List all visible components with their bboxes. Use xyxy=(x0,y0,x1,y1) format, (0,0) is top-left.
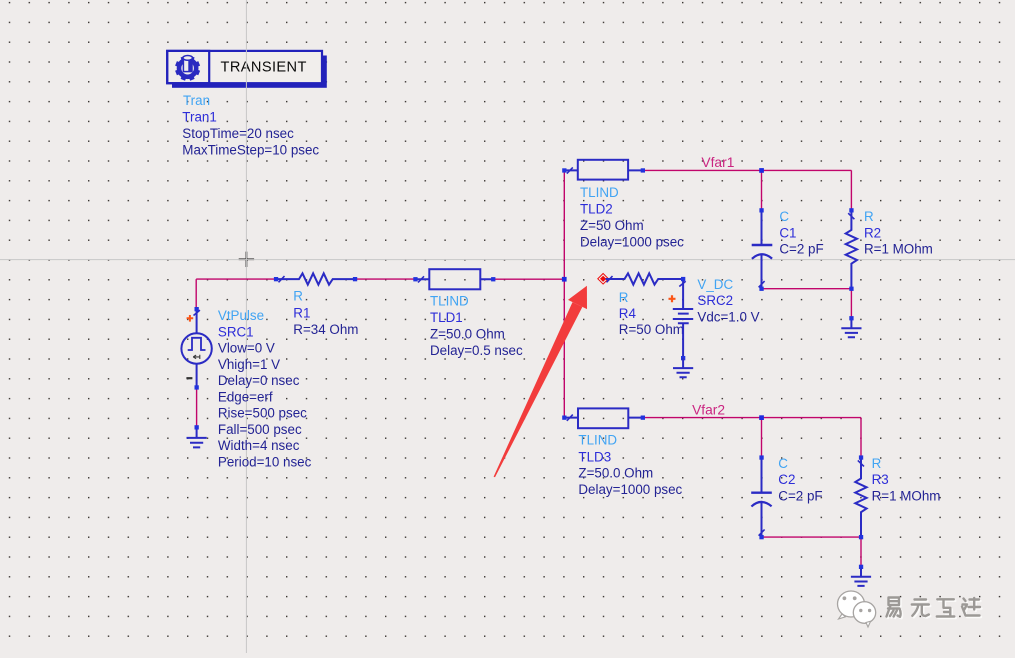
watermark wechat icon xyxy=(838,591,876,627)
svg-text:Rise=500 psec: Rise=500 psec xyxy=(218,406,307,421)
R2 text xyxy=(864,209,933,256)
svg-text:Width=4 nsec: Width=4 nsec xyxy=(218,438,300,453)
pin slash R1 xyxy=(279,276,285,282)
terminal C1 top xyxy=(759,208,763,212)
TRANSIENT controller box xyxy=(167,51,322,83)
minus sign SRC1 xyxy=(186,377,192,379)
wire TLD1 to junction xyxy=(493,278,564,280)
terminal TLD3 left xyxy=(562,416,566,420)
V_DC text xyxy=(697,277,759,324)
svg-text:R=1 MOhm: R=1 MOhm xyxy=(872,488,941,503)
unconnected pin node (red diamond) xyxy=(598,274,609,285)
tline TLD2 xyxy=(564,160,643,180)
svg-text:R=50 Ohm: R=50 Ohm xyxy=(619,322,684,337)
terminal R2 bottom junction xyxy=(849,287,853,291)
pin slash TLD2 xyxy=(567,167,573,173)
plus sign V_DC xyxy=(669,295,676,302)
wire src bottom xyxy=(196,387,198,427)
pin slash V_DC xyxy=(679,281,685,286)
pin slash TLD1 xyxy=(418,276,424,282)
svg-text:SRC2: SRC2 xyxy=(697,293,733,308)
svg-text:C: C xyxy=(778,456,788,471)
svg-text:Delay=1000 psec: Delay=1000 psec xyxy=(580,234,684,249)
terminal SRC1 bottom xyxy=(195,385,199,389)
R3 text xyxy=(872,456,941,503)
svg-text:C2: C2 xyxy=(778,472,795,487)
svg-text:Delay=0 nsec: Delay=0 nsec xyxy=(218,373,300,388)
resistor R1 xyxy=(276,273,355,284)
wire R2 to ground xyxy=(850,289,852,319)
svg-text:Vfar1: Vfar1 xyxy=(701,155,734,170)
wire C2 bottom to R3 bottom xyxy=(762,536,862,538)
svg-text:Fall=500 psec: Fall=500 psec xyxy=(218,422,302,437)
svg-text:R2: R2 xyxy=(864,225,881,240)
terminal R4 right corner xyxy=(681,277,685,281)
svg-text:Delay=0.5 nsec: Delay=0.5 nsec xyxy=(430,343,523,358)
TRANSIENT icon cell xyxy=(167,51,209,83)
svg-text:Vlow=0 V: Vlow=0 V xyxy=(218,341,275,356)
VtPulse SRC1 text xyxy=(218,308,312,470)
wire src top corner xyxy=(196,279,276,309)
svg-text:StopTime=20 nsec: StopTime=20 nsec xyxy=(182,126,294,141)
svg-text:TLD3: TLD3 xyxy=(578,449,611,464)
wire C1 bottom to R2 bottom xyxy=(762,288,852,290)
svg-text:Z=50.0 Ohm: Z=50.0 Ohm xyxy=(578,466,653,481)
junction Vfar2 xyxy=(759,415,764,420)
terminal R1 left xyxy=(274,277,278,281)
junction Vfar1 xyxy=(759,168,764,173)
svg-text:R: R xyxy=(872,456,882,471)
terminal TLD2 left xyxy=(562,168,566,172)
ground V_DC xyxy=(673,358,693,377)
terminal TLD1 right xyxy=(491,277,495,281)
wire C1 top xyxy=(761,170,763,210)
svg-text:Vfar2: Vfar2 xyxy=(692,403,725,418)
svg-text:Period=10 nsec: Period=10 nsec xyxy=(218,455,312,470)
terminal C1 bottom xyxy=(759,287,763,291)
resistor R4 xyxy=(606,273,684,309)
svg-text:Z=50 Ohm: Z=50 Ohm xyxy=(580,218,644,233)
svg-text:TLD1: TLD1 xyxy=(430,310,463,325)
terminal gnd R3 xyxy=(859,565,863,569)
ground R3 xyxy=(851,567,871,586)
svg-text:VtPulse: VtPulse xyxy=(218,308,264,323)
guide line horizontal xyxy=(0,259,1015,261)
svg-text:MaxTimeStep=10 psec: MaxTimeStep=10 psec xyxy=(182,142,319,157)
svg-text:C=2 pF: C=2 pF xyxy=(778,488,822,503)
wire R3 to ground xyxy=(860,537,862,567)
pin slash R3 xyxy=(858,460,864,466)
source VtPulse SRC1 xyxy=(181,309,211,387)
svg-text:Edge=erf: Edge=erf xyxy=(218,389,273,404)
svg-text:C: C xyxy=(779,209,789,224)
terminal R3 bottom junction xyxy=(859,535,863,539)
R4 text xyxy=(619,290,684,337)
terminal R3 top xyxy=(859,455,863,459)
svg-text:R4: R4 xyxy=(619,306,637,321)
TRANSIENT controller shadow xyxy=(172,56,327,88)
wire trunk vertical xyxy=(563,170,565,417)
svg-text:TLIND: TLIND xyxy=(580,185,619,200)
plus sign SRC1 xyxy=(187,315,194,322)
svg-text:Z=50.0 Ohm: Z=50.0 Ohm xyxy=(430,327,505,342)
capacitor C1 xyxy=(752,210,773,288)
cursor crosshair xyxy=(239,252,254,267)
svg-text:R3: R3 xyxy=(872,472,889,487)
ground SRC1 xyxy=(187,427,207,447)
svg-text:Vdc=1.0 V: Vdc=1.0 V xyxy=(697,309,759,324)
svg-text:Vhigh=1 V: Vhigh=1 V xyxy=(218,357,280,372)
TLD3 text xyxy=(578,433,682,497)
terminal C2 top xyxy=(759,455,763,459)
annotation red arrow xyxy=(494,286,587,478)
terminal V_DC bottom xyxy=(681,356,685,360)
svg-text:TLIND: TLIND xyxy=(578,433,617,448)
pin slash SRC1 xyxy=(194,310,200,315)
terminal gnd R2 xyxy=(849,316,853,320)
tline TLD3 xyxy=(564,408,643,428)
wire C2 top xyxy=(761,418,763,458)
guide line vertical xyxy=(245,0,247,653)
TLD2 text xyxy=(580,185,684,250)
svg-text:Delay=1000 psec: Delay=1000 psec xyxy=(578,482,682,497)
svg-text:R=1 MOhm: R=1 MOhm xyxy=(864,242,933,257)
dc source V_DC SRC2 (battery) xyxy=(673,309,693,358)
watermark text 易元互连 xyxy=(887,598,982,619)
svg-text:SRC1: SRC1 xyxy=(218,324,254,339)
wire TLD2 to corner Vfar1 xyxy=(643,170,852,210)
pin slash TLD3 xyxy=(567,415,573,421)
svg-text:TRANSIENT: TRANSIENT xyxy=(221,59,307,75)
terminal SRC1 top xyxy=(195,307,199,311)
pin slash R4 xyxy=(607,276,613,282)
svg-text:R: R xyxy=(619,290,629,305)
svg-text:TLIND: TLIND xyxy=(430,293,469,308)
Tran controller text xyxy=(182,93,319,157)
gear icon xyxy=(176,56,199,80)
svg-text:Tran: Tran xyxy=(183,93,210,108)
ground R2 xyxy=(841,318,861,337)
resistor R3 xyxy=(855,458,866,538)
svg-text:TLD2: TLD2 xyxy=(580,201,613,216)
terminal TLD2 right xyxy=(641,168,645,172)
terminal C2 bottom xyxy=(759,535,763,539)
C1 text xyxy=(779,209,823,256)
resistor R2 xyxy=(846,210,857,288)
svg-text:R: R xyxy=(293,289,303,304)
C2 text xyxy=(778,456,822,503)
terminal R2 top xyxy=(849,208,853,212)
wire TLD3 to corner Vfar2 xyxy=(643,418,861,458)
wire R1 to TLD1 xyxy=(355,278,415,280)
capacitor C2 xyxy=(751,458,772,538)
pin slash C1 xyxy=(759,281,765,287)
tline TLD1 xyxy=(415,269,493,289)
terminal R1 right xyxy=(353,277,357,281)
junction node trunk xyxy=(562,277,567,282)
svg-text:Tran1: Tran1 xyxy=(182,109,216,124)
pin slash C2 xyxy=(759,530,765,536)
pulse delay arrow glyph xyxy=(193,355,200,359)
TLD1 text xyxy=(430,293,523,358)
terminal TLD3 right xyxy=(641,416,645,420)
R1 text xyxy=(293,289,358,337)
svg-text:R: R xyxy=(864,209,874,224)
terminal gnd SRC1 xyxy=(195,425,199,429)
svg-text:R1: R1 xyxy=(293,305,310,320)
terminal TLD1 left xyxy=(413,277,417,281)
pin slash R2 xyxy=(848,213,854,219)
svg-text:R=34 Ohm: R=34 Ohm xyxy=(293,322,358,337)
svg-text:V_DC: V_DC xyxy=(697,277,733,292)
svg-text:C1: C1 xyxy=(779,225,796,240)
svg-text:C=2 pF: C=2 pF xyxy=(779,242,823,257)
